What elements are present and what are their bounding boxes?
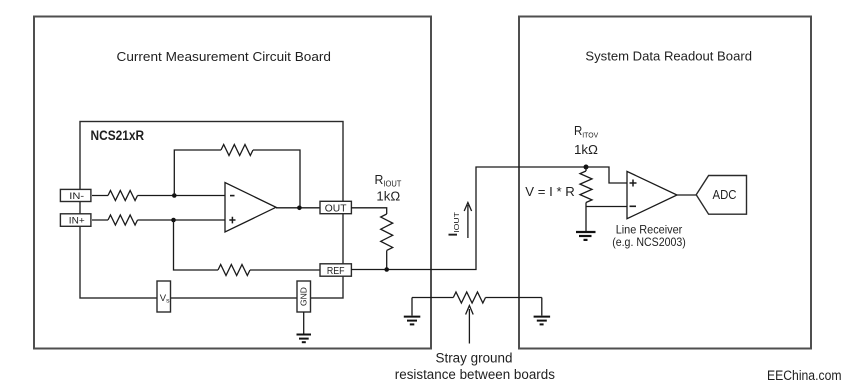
svg-text:V = I * R: V = I * R: [525, 184, 575, 199]
op-amp A1 minus sign: [230, 195, 235, 197]
wire: GND pin to ground: [303, 312, 305, 334]
svg-text:System Data Readout Board: System Data Readout Board: [585, 49, 752, 64]
ADC block: [696, 176, 746, 215]
wire: RITOV bottom to ground: [585, 207, 587, 232]
pin IN+: [60, 214, 91, 227]
feedback resistor R-fb wire from inverting node over op-amp to output: [174, 145, 300, 208]
svg-text:ADC: ADC: [713, 187, 737, 202]
pin IN-: [60, 189, 91, 202]
svg-text:1kΩ: 1kΩ: [574, 142, 598, 157]
stray ground resistance wire between boards: [412, 292, 542, 316]
svg-text:(e.g. NCS2003): (e.g. NCS2003): [612, 235, 686, 249]
op-amp U2 line receiver: [627, 171, 677, 218]
svg-text:REF: REF: [327, 266, 345, 277]
svg-text:Stray ground: Stray ground: [436, 350, 513, 365]
svg-text:EEChina.com: EEChina.com: [767, 368, 842, 384]
svg-text:IN-: IN-: [69, 191, 84, 202]
wire: to line receiver - input: [586, 206, 627, 208]
svg-text:OUT: OUT: [325, 203, 347, 214]
ground symbol under GND pin: [297, 335, 312, 343]
svg-text:Current Measurement Circuit Bo: Current Measurement Circuit Board: [117, 49, 332, 64]
IC U1 NCS21xR outline: [80, 122, 343, 299]
junction node at RITOV top: [584, 165, 589, 170]
board box: Current Measurement Circuit Board: [34, 17, 431, 349]
wire: to line receiver + input: [586, 167, 627, 183]
pin Vs: [157, 281, 171, 312]
board box: System Data Readout Board: [519, 17, 811, 349]
wire: IN- to op-amp inverting input with input resistor: [92, 191, 225, 201]
op-amp A1 (NCS21xR internal amplifier): [225, 183, 276, 233]
svg-text:GND: GND: [299, 287, 309, 306]
svg-text:NCS21xR: NCS21xR: [91, 128, 145, 143]
ground symbol left (measurement board): [404, 317, 421, 325]
wire: IN+ to op-amp non-inverting input with input resistor: [92, 215, 225, 225]
ground symbol under RITOV: [576, 232, 596, 240]
wire: line receiver output to ADC: [677, 194, 696, 196]
wire: OUT pin to RIOUT resistor: [351, 208, 387, 214]
pin OUT: [320, 201, 351, 214]
op-amp U2 minus sign: [630, 205, 637, 207]
resistor RIOUT 1k: [381, 214, 393, 250]
ground symbol right (readout board): [534, 317, 551, 325]
wire: REF to readout board input: [351, 167, 586, 270]
wire: op-amp output to OUT pin: [276, 207, 321, 209]
pin REF: [320, 264, 351, 277]
op-amp U2 plus sign: [630, 180, 637, 187]
pin GND: [297, 281, 311, 312]
junction node RIOUT/REF: [384, 267, 389, 272]
junction node at output/feedback: [297, 206, 302, 211]
svg-text:1kΩ: 1kΩ: [376, 188, 400, 203]
wire: RITOV stems: [585, 167, 587, 207]
op-amp A1 plus sign: [229, 217, 235, 224]
pointer arrow to stray resistor: [466, 306, 474, 344]
resistor RITOV 1k: [580, 171, 592, 202]
junction node on inverting input: [172, 193, 177, 198]
junction node on non-inverting input: [171, 218, 176, 223]
gain resistor wire from non-inverting node down to REF: [174, 220, 322, 276]
svg-text:IN+: IN+: [69, 215, 85, 226]
current arrow IIOUT: [464, 203, 471, 239]
svg-text:resistance between boards: resistance between boards: [395, 367, 555, 382]
wire: RIOUT bottom to REF line: [386, 251, 388, 270]
